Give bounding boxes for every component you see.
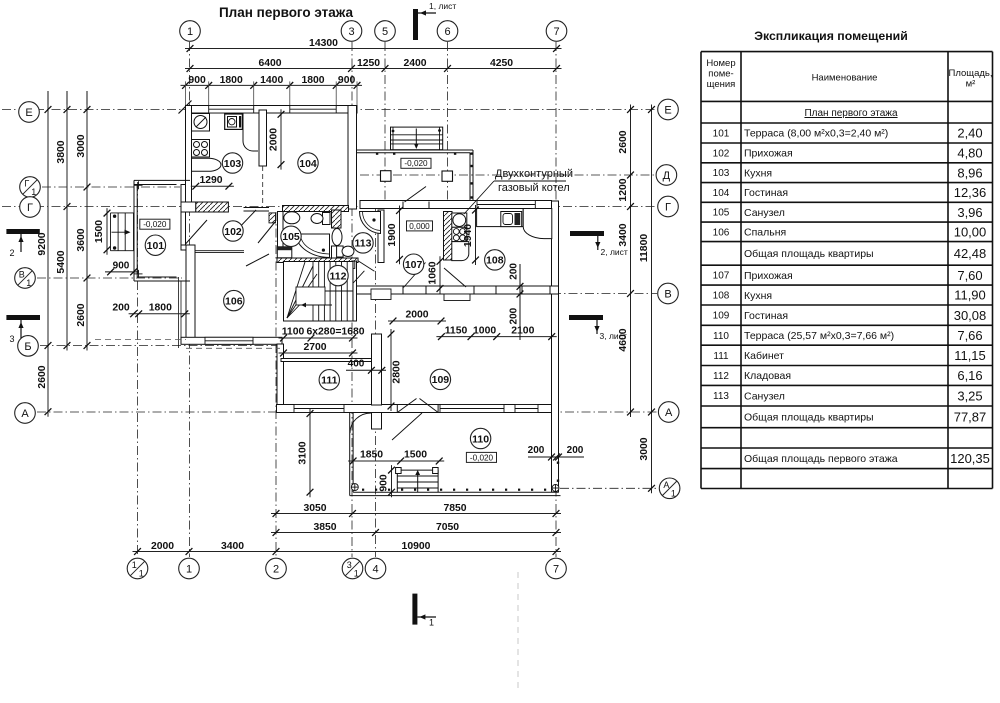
svg-text:11,15: 11,15 [954, 348, 986, 363]
stairs main [284, 262, 354, 322]
axis line 6 vertical [447, 42, 449, 201]
axis circle E left [19, 102, 40, 123]
svg-text:400: 400 [348, 359, 365, 370]
svg-text:Прихожая: Прихожая [744, 270, 793, 282]
door swing 101 to 102 [186, 220, 208, 244]
landing platform 107 [371, 289, 391, 300]
axis line A horizontal [37, 411, 657, 413]
svg-text:2, лист: 2, лист [601, 247, 628, 257]
svg-text:4,80: 4,80 [957, 146, 982, 161]
axis circle V1 left [15, 268, 36, 289]
wall bottom 105 113 [277, 258, 358, 263]
axis circle 7 bottom [546, 558, 567, 579]
counter kitchen 103 [192, 158, 222, 171]
axis line 5 vertical [384, 42, 386, 207]
svg-text:Е: Е [664, 105, 671, 117]
svg-text:1800: 1800 [220, 75, 243, 86]
svg-text:3,25: 3,25 [957, 388, 982, 403]
corner tick top left [179, 101, 192, 114]
svg-text:1: 1 [139, 569, 144, 579]
wall hatched 107 108 [444, 212, 453, 261]
svg-text:Г: Г [665, 202, 671, 214]
eave line left of 106 [179, 277, 182, 348]
svg-text:900: 900 [379, 474, 390, 492]
dim 2700 [279, 342, 358, 356]
faint dashed vertical [517, 572, 519, 688]
svg-text:104: 104 [713, 188, 730, 199]
svg-text:2600: 2600 [618, 130, 629, 153]
axis line 1 vertical [189, 42, 191, 557]
svg-text:Экспликация помещений: Экспликация помещений [754, 29, 908, 43]
table rows [713, 126, 990, 466]
svg-text:105: 105 [713, 208, 730, 219]
svg-text:3: 3 [347, 560, 352, 570]
svg-text:7,60: 7,60 [957, 268, 982, 283]
svg-text:3050: 3050 [303, 503, 326, 514]
svg-text:Спальня: Спальня [744, 227, 786, 239]
svg-text:5: 5 [382, 26, 388, 38]
svg-text:щения: щения [707, 79, 736, 90]
svg-text:7: 7 [553, 564, 559, 576]
svg-text:1: 1 [671, 488, 676, 498]
dim 1900 [387, 206, 403, 265]
wall right of room 104 [348, 106, 357, 210]
svg-text:3000: 3000 [76, 134, 87, 157]
stove kitchen 103 [192, 140, 210, 158]
svg-text:1060: 1060 [428, 261, 439, 284]
svg-text:42,48: 42,48 [954, 246, 987, 261]
window room 109 right [515, 405, 538, 413]
svg-text:Терраса (25,57 м²х0,3=7,66 м²): Терраса (25,57 м²х0,3=7,66 м²) [744, 330, 894, 342]
svg-text:120,35: 120,35 [950, 451, 990, 466]
svg-text:1100: 1100 [282, 327, 305, 338]
svg-text:4250: 4250 [490, 58, 513, 69]
stove kitchen 108 [452, 227, 467, 241]
wall 105 113 pier [332, 210, 342, 228]
left chain overshoot [48, 91, 87, 110]
wall left 106 [186, 245, 195, 344]
porch column right [442, 171, 453, 181]
svg-text:1, лист: 1, лист [429, 1, 456, 11]
svg-text:Наименование: Наименование [812, 73, 878, 84]
svg-text:Д: Д [663, 170, 671, 182]
dim 900 terrace stair [379, 465, 395, 497]
dim 2000 room104 [269, 109, 285, 169]
door swings 112 113 [350, 261, 374, 286]
svg-text:200: 200 [528, 445, 545, 456]
dim 3100 terrace [298, 409, 314, 498]
axis line 2 vertical [275, 212, 277, 557]
svg-text:3000: 3000 [639, 437, 650, 460]
section mark 1 list top [413, 1, 456, 40]
svg-text:Санузел: Санузел [744, 207, 785, 219]
svg-text:109: 109 [432, 374, 450, 386]
door opening top right [403, 202, 429, 209]
axis line 4 vertical [375, 205, 377, 557]
wall 107 109 horizontal [352, 286, 559, 294]
dim 2600 1200 3400 4600 right [618, 105, 634, 418]
eaves dashed below 101 [95, 339, 186, 341]
dim 900 101 [105, 261, 139, 276]
wall 102 105 [278, 212, 284, 248]
svg-text:2000: 2000 [151, 541, 174, 552]
axis circle E right [658, 99, 679, 120]
dim 9200 2600 left outer [37, 105, 51, 417]
window living 104 [290, 106, 336, 114]
dim 1150 1000 2100 [436, 325, 556, 340]
wall hatched below 104 [283, 206, 349, 212]
door dash 104 [262, 166, 264, 205]
axis circle G1 left [20, 177, 41, 198]
door swing arc into terrace [350, 413, 371, 433]
svg-text:А: А [665, 407, 673, 419]
svg-text:111: 111 [321, 375, 338, 387]
svg-text:3600: 3600 [76, 228, 87, 251]
svg-text:30,08: 30,08 [954, 308, 987, 323]
svg-text:Прихожая: Прихожая [744, 148, 793, 160]
axis line G1 horizontal [42, 186, 180, 188]
svg-text:7850: 7850 [443, 503, 466, 514]
svg-text:101: 101 [713, 129, 730, 140]
svg-text:6,16: 6,16 [957, 368, 982, 383]
sink kitchen 103 [192, 114, 210, 132]
svg-text:Общая площадь квартиры: Общая площадь квартиры [744, 412, 874, 424]
dim 200 1800 left [112, 303, 189, 318]
room 103 [222, 153, 242, 173]
svg-text:11,90: 11,90 [954, 288, 986, 303]
svg-text:1940: 1940 [463, 224, 474, 247]
wall 113 right [378, 210, 384, 263]
svg-text:108: 108 [486, 255, 504, 267]
room 102 [223, 221, 243, 241]
svg-text:11800: 11800 [639, 234, 650, 263]
terrace stair [396, 468, 439, 493]
svg-text:Кабинет: Кабинет [744, 350, 784, 362]
wall 105 113 lower [332, 246, 342, 258]
svg-text:900: 900 [188, 75, 206, 86]
elevation 0,000 hall [407, 221, 433, 231]
svg-text:10900: 10900 [402, 541, 431, 552]
axis circle G right [658, 196, 679, 217]
svg-text:8,96: 8,96 [957, 165, 982, 180]
terrace 101 outline [134, 180, 190, 281]
axis circle B left [18, 336, 39, 357]
svg-text:77,87: 77,87 [954, 410, 987, 425]
svg-text:106: 106 [225, 295, 243, 307]
axis line 3 vertical [351, 42, 353, 557]
svg-text:2: 2 [273, 564, 279, 576]
svg-text:2100: 2100 [511, 325, 534, 336]
terrace drain cross [351, 484, 358, 491]
svg-text:Общая площадь первого этажа: Общая площадь первого этажа [744, 453, 898, 465]
axis circle 1 top [180, 21, 201, 42]
room 111 [319, 370, 339, 390]
svg-text:7,66: 7,66 [957, 328, 982, 343]
wall top exterior [186, 106, 358, 114]
wall stub below A at terrace [372, 413, 382, 430]
svg-text:103: 103 [224, 158, 242, 170]
svg-text:Г: Г [24, 179, 29, 189]
terrace 110 outline [350, 413, 561, 496]
room 105 [281, 226, 301, 246]
stair left entrance [111, 213, 134, 251]
window room 106 [205, 337, 253, 344]
svg-text:1: 1 [31, 187, 36, 197]
eaves dashed below 106 [186, 347, 280, 349]
dim 1940 [463, 205, 479, 265]
svg-text:2000: 2000 [269, 128, 280, 151]
terrace 101 corner crosses [135, 181, 143, 278]
section mark 2 left [6, 229, 39, 258]
svg-text:2800: 2800 [392, 360, 403, 383]
svg-text:6x280=1680: 6x280=1680 [306, 327, 364, 338]
svg-text:Б: Б [24, 341, 31, 353]
axis circle 1 bottom [179, 558, 200, 579]
wall right exterior [552, 201, 559, 492]
axis circle A right [658, 402, 679, 423]
svg-text:Е: Е [25, 107, 32, 119]
svg-text:101: 101 [147, 240, 165, 252]
svg-text:1850: 1850 [360, 450, 383, 461]
svg-text:4: 4 [372, 564, 378, 576]
dim 200 200 vertical near 108 door [509, 263, 524, 340]
porch steps [391, 127, 443, 150]
svg-text:1: 1 [354, 569, 359, 579]
axis circle 7 top [546, 21, 567, 42]
svg-text:7: 7 [553, 26, 559, 38]
axis line 7 vertical [555, 42, 557, 557]
svg-text:200: 200 [509, 263, 520, 280]
bath 105 [296, 234, 330, 258]
svg-text:102: 102 [224, 226, 242, 238]
axis circle 3-1 bottom [342, 558, 363, 579]
section mark 3 left [6, 315, 40, 344]
svg-text:104: 104 [299, 158, 317, 170]
axis circle G left [20, 197, 41, 218]
svg-text:3400: 3400 [618, 223, 629, 246]
room 110 [470, 428, 490, 448]
dim 2000 107 [388, 310, 446, 325]
room 107 [403, 254, 423, 274]
window room 109 left [440, 405, 504, 413]
room 106 [224, 290, 244, 310]
svg-text:Кухня: Кухня [744, 290, 772, 302]
toilet 105 [311, 213, 330, 225]
dark block washing machine [277, 247, 292, 258]
dim 11800 3000 right outer [639, 105, 655, 494]
axis line D horizontal [360, 174, 655, 176]
svg-text:1800: 1800 [149, 303, 172, 314]
svg-text:Кладовая: Кладовая [744, 370, 791, 382]
dim 3800 5400 left [56, 105, 70, 351]
wall bottom 106 [181, 337, 282, 344]
svg-text:-0,020: -0,020 [404, 159, 428, 168]
threshold below 108 door [444, 294, 470, 301]
svg-text:1200: 1200 [618, 178, 629, 201]
svg-text:1000: 1000 [473, 325, 496, 336]
dim 900 1800 1400 1800 900 [181, 75, 363, 106]
svg-text:В: В [19, 270, 25, 280]
wall left 102 terrace side [181, 185, 186, 251]
door swing french into terrace [392, 413, 422, 440]
svg-text:Двухконтурный: Двухконтурный [495, 168, 573, 180]
axis circle D right [656, 165, 677, 186]
appliance kitchen 103 top [225, 114, 243, 129]
toilet 113 [337, 246, 354, 257]
dim 14300 [185, 38, 562, 52]
room 109 [430, 369, 450, 389]
dim 3000 3600 2600 left inner [76, 105, 90, 351]
svg-text:107: 107 [713, 271, 730, 282]
svg-text:2600: 2600 [76, 303, 87, 326]
wall bottom axis A [277, 405, 559, 413]
svg-text:2600: 2600 [37, 365, 48, 388]
terrace dots right edge [557, 462, 559, 482]
axis circle 6 top [437, 21, 458, 42]
svg-text:А: А [21, 408, 29, 420]
svg-text:900: 900 [338, 75, 356, 86]
dim 400 [346, 359, 386, 374]
axis circle 2 bottom [266, 558, 287, 579]
svg-text:3, лист: 3, лист [600, 331, 627, 341]
section mark 1 bottom [412, 594, 436, 628]
svg-text:112: 112 [330, 270, 347, 282]
window kitchen 108 [477, 201, 535, 209]
door swing 105 to 102 [258, 222, 275, 243]
room 101 [145, 235, 165, 255]
svg-text:газовый котел: газовый котел [498, 182, 570, 194]
wall left 111 [277, 344, 284, 405]
svg-text:3800: 3800 [56, 140, 67, 163]
svg-text:113: 113 [355, 238, 372, 250]
svg-text:Гостиная: Гостиная [744, 310, 788, 322]
room 113 [353, 233, 373, 253]
axis circle 3 top [341, 21, 362, 42]
dim 3850 7050 [271, 522, 561, 536]
label boiler [464, 168, 573, 214]
porch outline [357, 150, 474, 201]
dim 2800 [388, 329, 403, 411]
svg-text:1250: 1250 [357, 58, 380, 69]
axis line V horizontal [420, 293, 657, 295]
svg-text:112: 112 [713, 371, 729, 382]
svg-text:Площадь,: Площадь, [949, 68, 993, 79]
svg-text:105: 105 [282, 231, 300, 243]
svg-text:Кухня: Кухня [744, 167, 772, 179]
room 112 [328, 265, 348, 285]
svg-text:В: В [664, 289, 671, 301]
door swing 103 lower [235, 210, 256, 232]
dim 2000 3400 10900 [133, 541, 562, 555]
room 108 [485, 250, 505, 270]
partition top of 106 [195, 251, 244, 253]
axis circle 5 top [375, 21, 396, 42]
svg-text:Гостиная: Гостиная [744, 187, 788, 199]
svg-text:1800: 1800 [301, 75, 324, 86]
window room 111 [294, 405, 344, 413]
table header texts [706, 58, 992, 90]
wall top of 111 [281, 359, 372, 362]
svg-text:7050: 7050 [436, 522, 459, 533]
svg-text:2,40: 2,40 [957, 126, 982, 141]
svg-text:109: 109 [713, 311, 730, 322]
elevation -0,020 porch [401, 158, 431, 168]
svg-text:План первого этажа: План первого этажа [219, 5, 354, 20]
pier 102 105 hatched [269, 213, 276, 223]
cabinet below stove 108 [452, 242, 469, 261]
svg-text:107: 107 [405, 259, 423, 271]
svg-text:111: 111 [713, 351, 729, 362]
axis circle A left [15, 403, 36, 424]
boiler unit [452, 213, 467, 227]
axis line V1 horizontal [37, 277, 182, 279]
svg-text:1150: 1150 [445, 325, 468, 336]
axis circle 4 bottom [365, 558, 386, 579]
section mark 3 list right [569, 315, 627, 341]
sink 105 [284, 212, 300, 224]
svg-text:113: 113 [713, 391, 729, 402]
wall partition 103 104 [259, 110, 267, 166]
wall top right section [360, 201, 552, 209]
svg-text:900: 900 [113, 261, 130, 272]
svg-text:6: 6 [444, 26, 450, 38]
svg-text:9200: 9200 [37, 232, 48, 255]
dim 200 200 terrace right [528, 445, 584, 461]
wall jog below kitchen [181, 202, 196, 212]
wall stairs right [352, 261, 357, 321]
dim 1060 [428, 256, 444, 293]
french door room 109 [397, 399, 438, 413]
door openings wall 107 109 [403, 287, 426, 294]
dim 3050 7850 [271, 503, 561, 517]
svg-text:А: А [663, 480, 669, 490]
axis line A1 horizontal [560, 487, 657, 489]
svg-text:14300: 14300 [309, 38, 338, 49]
svg-text:Терраса (8,00 м²х0,3=2,40 м²): Терраса (8,00 м²х0,3=2,40 м²) [744, 128, 888, 140]
porch dots [376, 152, 473, 198]
dim 6400 1250 2400 4250 [185, 58, 562, 72]
wall left kitchen [186, 106, 192, 209]
svg-text:5400: 5400 [56, 250, 67, 273]
dim 1100 6x280 [279, 327, 365, 342]
svg-text:200: 200 [567, 445, 584, 456]
axis line B horizontal [40, 345, 282, 347]
counter kitchen 108 top [477, 209, 552, 239]
svg-text:1: 1 [187, 26, 193, 38]
terrace drain cross right [552, 485, 559, 492]
axis circle A1 right [659, 478, 680, 499]
svg-text:1: 1 [429, 618, 434, 628]
svg-text:1900: 1900 [387, 223, 398, 246]
svg-text:Г: Г [27, 202, 33, 214]
svg-text:План первого этажа: План первого этажа [804, 108, 898, 119]
svg-text:2000: 2000 [405, 310, 428, 321]
svg-text:1500: 1500 [404, 450, 427, 461]
svg-text:102: 102 [713, 148, 730, 159]
svg-text:110: 110 [713, 331, 729, 342]
svg-text:2400: 2400 [403, 58, 426, 69]
dim 1290 [191, 175, 234, 190]
axis line G horizontal [2, 206, 657, 208]
axis circle 1-1 bottom [127, 558, 148, 579]
shower 113 [360, 212, 381, 234]
svg-text:3850: 3850 [313, 522, 336, 533]
svg-text:3,96: 3,96 [957, 205, 982, 220]
svg-text:м²: м² [966, 79, 976, 90]
axis line E horizontal [2, 109, 657, 111]
room 104 [298, 153, 318, 173]
svg-text:0,000: 0,000 [409, 222, 430, 231]
